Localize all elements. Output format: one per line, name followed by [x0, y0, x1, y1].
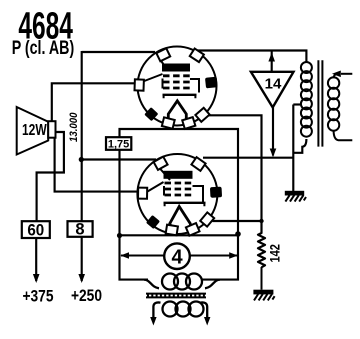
svg-text:12W: 12W	[22, 120, 47, 138]
svg-text:13.000: 13.000	[67, 112, 80, 142]
svg-text:+250: +250	[71, 287, 102, 306]
svg-text:P (cl. AB): P (cl. AB)	[12, 37, 75, 58]
svg-text:60: 60	[27, 222, 44, 240]
svg-text:8: 8	[75, 221, 84, 239]
svg-text:142: 142	[267, 244, 282, 263]
svg-text:+375: +375	[23, 287, 54, 306]
svg-text:1,75: 1,75	[108, 139, 129, 151]
svg-text:4: 4	[171, 247, 183, 269]
svg-text:14: 14	[265, 76, 282, 93]
